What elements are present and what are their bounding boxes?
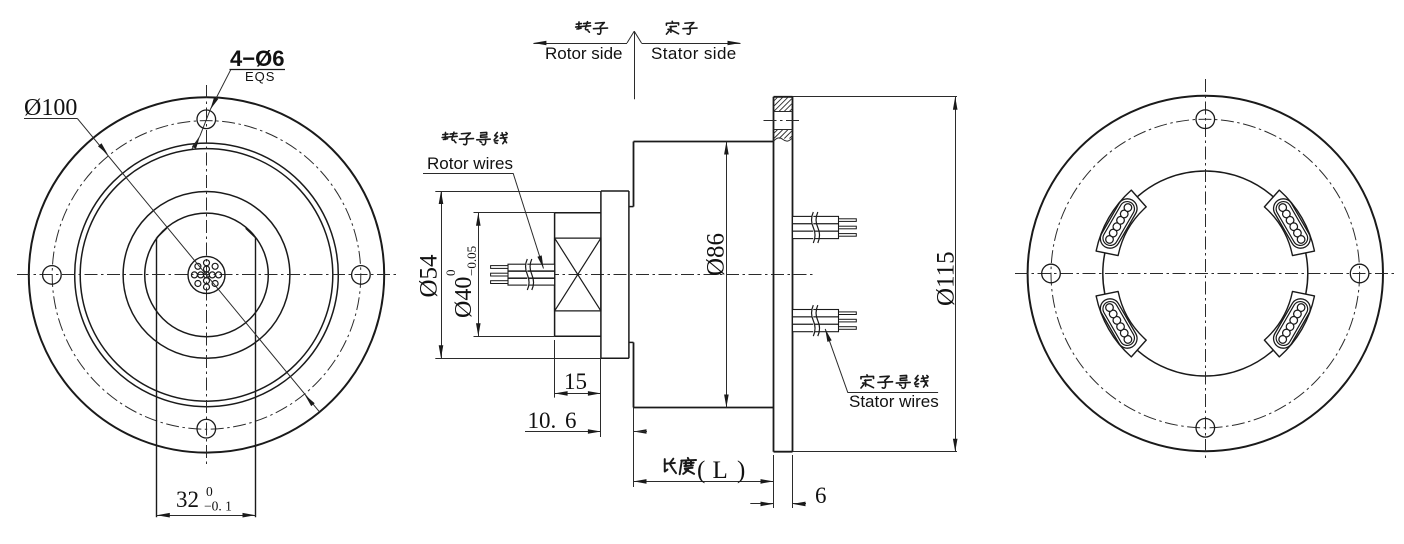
middle view: rotor cap D40 outline — [555, 213, 601, 337]
middle view: rotor wires leader arrow — [537, 255, 543, 268]
middle view: D40 dimension line — [478, 213, 480, 337]
middle view: length L dimension line — [634, 481, 774, 483]
middle view: length L label chinese + (L) — [665, 459, 676, 473]
svg-text:Ø54: Ø54 — [416, 254, 443, 298]
svg-text:0: 0 — [206, 484, 213, 499]
left view: 32 dimension line — [157, 515, 256, 517]
svg-text:4−Ø6: 4−Ø6 — [230, 46, 284, 71]
middle view: D40 label with tolerance — [443, 246, 479, 318]
left view: slot left chamfer — [157, 228, 167, 237]
middle view: flange section hatch lower band — [774, 130, 793, 139]
middle view: body step upper — [629, 206, 634, 208]
left view: slot right edge width 32 — [255, 238, 257, 518]
middle view: stator wire bundle upper — [793, 216, 839, 238]
left view: 32 dim arrow left — [157, 513, 170, 518]
left view: center wire holes cluster — [191, 260, 221, 290]
middle view: 15 dimension line — [555, 393, 601, 395]
middle view: D54 arrows — [439, 191, 444, 204]
middle view: flange left edge — [773, 97, 775, 452]
middle view: rotor wire leads — [491, 266, 508, 284]
middle view: flange bolt hole centerline — [764, 120, 802, 122]
middle view: rotor/stator divider vertical line — [634, 31, 636, 99]
middle view: slip ring stack box — [555, 238, 601, 311]
middle view: rotor wire bundle — [508, 264, 555, 285]
left view: D100 dimension arrow lower — [305, 395, 315, 407]
left view: bolt hole left — [43, 266, 62, 285]
middle view: stator wires label chinese — [861, 375, 874, 388]
middle view: stator wire bundle lower — [793, 310, 839, 332]
middle view: 10.6 arrows — [588, 429, 601, 434]
right view: bolt circle centerline — [1051, 119, 1360, 428]
middle view: length L arrows — [634, 479, 647, 484]
right view: vertical centerline — [1205, 79, 1207, 459]
middle view: flange bolt hole upper edge — [774, 111, 793, 113]
middle view: body left face upper — [633, 142, 635, 207]
svg-text:−0. 1: −0. 1 — [204, 499, 232, 514]
right view: bolt hole left — [1042, 264, 1061, 283]
middle view: 10.6 extension line — [633, 408, 635, 438]
right view: bolt hole right — [1350, 264, 1369, 283]
right view: horizontal centerline — [1015, 273, 1396, 275]
right view: connector NW — [1096, 190, 1146, 256]
svg-text:Rotor side: Rotor side — [545, 44, 622, 63]
middle view: D86 arrows — [724, 142, 729, 155]
middle view: D86 dimension line — [726, 142, 728, 408]
middle view: D115 extension bottom — [793, 451, 958, 453]
svg-text:Stator wires: Stator wires — [849, 392, 939, 411]
middle view: D40 extension top — [474, 212, 555, 214]
svg-text:Ø86: Ø86 — [703, 233, 730, 276]
left view: bolt hole bottom — [197, 419, 216, 438]
right view: bolt hole top — [1196, 110, 1215, 129]
svg-text:Ø100: Ø100 — [24, 95, 77, 121]
left view: 4-D6 leader through hole — [200, 110, 210, 137]
left view: slot right chamfer — [246, 228, 256, 237]
middle view: 15 dim extension right — [600, 358, 602, 437]
left view: slot left edge width 32 — [156, 238, 158, 518]
middle view: slip ring stack cross diagonal 2 — [555, 238, 601, 311]
right view: connector NE — [1264, 190, 1314, 256]
middle view: 6 dim extension left — [773, 487, 775, 508]
middle view: label dingzi (stator) chinese — [666, 21, 678, 34]
left view: center wire-bundle circle — [188, 256, 225, 293]
middle view: D115 dimension line — [955, 97, 957, 452]
left view: vertical centerline — [206, 85, 208, 464]
middle view: 10.6 dim tail-line — [525, 431, 601, 433]
middle view: 6 dim extension right — [792, 455, 794, 508]
left view: 32 dim arrow right — [243, 513, 256, 518]
middle view: label zhuanzi (rotor) chinese — [576, 22, 591, 33]
middle view: body left face lower — [633, 342, 635, 407]
svg-text:32: 32 — [176, 487, 199, 512]
right view: inner circle — [1103, 171, 1308, 376]
middle view: rotor side arrowhead — [533, 41, 546, 46]
svg-text:Ø115: Ø115 — [933, 251, 960, 306]
middle view: length L extension right — [773, 455, 775, 487]
left view: D100 dimension arrow upper — [98, 143, 108, 155]
right view: bolt hole bottom — [1196, 419, 1215, 438]
middle view: rotor wires leader — [513, 173, 543, 268]
middle view: D115 arrows — [953, 97, 958, 110]
middle view: flange top edge — [774, 96, 793, 98]
middle view: flange bolt hole lower edge — [774, 129, 793, 131]
svg-text:6: 6 — [815, 483, 827, 508]
middle view: stator wires label underline — [848, 392, 938, 394]
middle view: D54 dimension line — [441, 191, 443, 358]
middle view: body top edge D86 — [634, 141, 774, 143]
svg-text:(L): (L) — [697, 457, 745, 484]
svg-text:Stator side: Stator side — [651, 44, 737, 63]
middle view: ring D54 top edge — [601, 190, 629, 192]
left view: 4-D6 arrow at hole — [210, 97, 218, 110]
svg-text:10.6: 10.6 — [528, 408, 577, 433]
middle view: 6 right arrow with tail — [793, 503, 807, 505]
left view: 4-D6 leader line — [210, 69, 231, 109]
middle view: ring D54 bottom edge — [601, 357, 629, 359]
svg-text:EQS: EQS — [245, 69, 275, 84]
middle view: D40 arrows — [476, 213, 481, 226]
svg-text:−0.05: −0.05 — [464, 246, 479, 276]
svg-text:0: 0 — [443, 270, 458, 277]
middle view: flange section hatch upper band — [774, 97, 793, 112]
middle view: body step lower — [629, 341, 634, 343]
left view: circle D40 — [145, 213, 269, 337]
middle view: rotor side arrow line — [533, 43, 627, 45]
middle view: stator wires leader — [825, 329, 848, 393]
right view: outer circle D115 — [1028, 96, 1383, 451]
middle view: D115 extension top — [793, 96, 958, 98]
middle view: ring D54 right edge — [628, 191, 630, 358]
middle view: stator side arrow line — [634, 31, 641, 43]
right view: connector SW — [1096, 291, 1146, 357]
middle view: rotor wires label chinese — [442, 132, 457, 143]
middle view: ring D54 left edge — [600, 191, 602, 358]
middle view: rotor wires label underline — [423, 173, 513, 175]
svg-text:15: 15 — [564, 369, 587, 394]
left view: bolt hole right — [352, 266, 371, 285]
left view: horizontal centerline — [17, 274, 396, 276]
left view: stator housing circle inner rim — [80, 149, 333, 402]
svg-text:Ø40: Ø40 — [451, 277, 477, 318]
middle view: flange partial-section wavy break line — [774, 138, 793, 142]
left view: 4-D6 label underline — [230, 69, 286, 71]
middle view: rotor wire break symbol — [530, 259, 534, 290]
left view: D100 label underline — [24, 118, 77, 120]
left view: flange front outline circle D115 — [29, 97, 384, 452]
middle view: length L extension left — [633, 437, 635, 487]
right view: connector SE — [1264, 291, 1314, 357]
middle view: 6 left arrow with tail — [750, 503, 773, 505]
left view: stator housing circle D86 outer — [75, 143, 339, 407]
middle view: D40 extension bottom — [474, 336, 555, 338]
middle view: body bottom edge D86 — [634, 407, 774, 409]
svg-text:Rotor wires: Rotor wires — [427, 154, 513, 173]
middle view: 15 dim extension left — [554, 340, 556, 398]
left view: bolt circle D100 centerline — [52, 121, 361, 430]
middle view: D54 extension top — [435, 191, 601, 193]
middle view: D54 extension bottom — [435, 358, 601, 360]
left view: 4-D6 lower arrow — [192, 136, 200, 149]
middle view: slip ring stack cross diagonal 1 — [555, 238, 601, 311]
left view: bolt hole top — [197, 110, 216, 129]
left view: D100 dimension leader line — [77, 118, 319, 411]
left view: 4-D6 lower arrow tail — [192, 136, 200, 149]
left view: circle D54 — [123, 192, 290, 359]
middle view: stator wires leader arrow — [825, 329, 832, 342]
middle view: stator side arrowhead — [728, 41, 741, 46]
middle view: flange right edge — [792, 97, 794, 452]
middle view: 15 arrows — [555, 391, 568, 396]
middle view: 10.6 right arrow tail — [634, 431, 648, 433]
middle view: horizontal centerline — [546, 274, 816, 276]
middle view: flange bottom edge — [774, 451, 793, 453]
